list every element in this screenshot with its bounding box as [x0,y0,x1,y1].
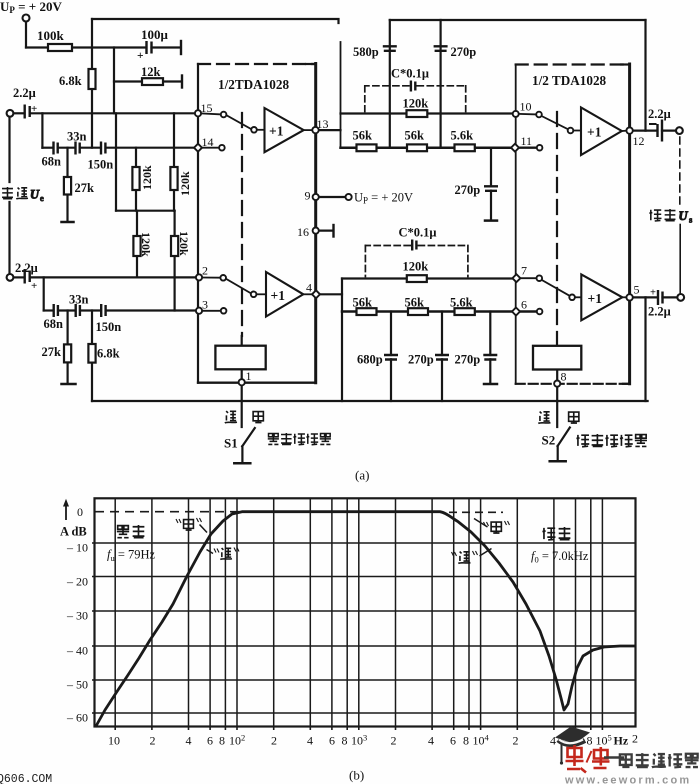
svg-text:(a): (a) [355,468,369,483]
label input Ue [2,187,44,203]
terminal input lower [7,274,14,281]
svg-text:56k: 56k [353,296,373,310]
svg-text:12: 12 [633,134,645,148]
capacitor 580p plates [383,46,397,51]
node pin14 [194,144,202,152]
svg-text:68n: 68n [42,155,62,169]
resistor 120k no1 [132,167,139,190]
svg-text:1/2TDA1028: 1/2TDA1028 [218,77,289,92]
wire 270p mid column [441,312,443,356]
wire 270p top column [440,20,442,148]
svg-text:2: 2 [150,734,156,748]
wire out lower link [633,296,658,298]
svg-text:104: 104 [473,733,490,748]
capacitor 33n upper [76,142,80,155]
svg-text:2.2μ: 2.2μ [648,107,671,121]
wire 120k no2 column [173,113,175,210]
svg-text:+1: +1 [271,288,286,303]
amp4 out wire [622,296,626,298]
wire 120k no4 column [174,211,176,311]
resistor 27k upper [64,177,71,195]
control block U1 [215,346,265,370]
terminal out lower [677,294,684,301]
svg-text:270p: 270p [455,183,481,197]
resistor 56k f2a [357,308,377,315]
svg-text:5: 5 [634,283,640,297]
label duan-quoted right [484,521,510,533]
svg-text:120k: 120k [139,232,153,257]
resistor 56k f2b [408,308,428,315]
capacitor 2.2u out lower plates [658,290,663,305]
switch ch4 wires [519,277,536,279]
contact amp1 in [251,127,257,133]
wire 270p ch1 column [490,148,492,186]
svg-text:8: 8 [561,370,567,384]
svg-text:68n: 68n [44,317,64,331]
wire input upper lead [14,112,25,114]
svg-text:– 50: – 50 [66,678,88,692]
capacitor 680p plates [384,355,398,360]
wire input bus x9.5 upper [8,117,10,182]
IC2 inner dashed [556,112,558,346]
resistor 6.8k upper [89,69,96,89]
contact 14a [219,145,225,151]
wire mid divider bus y210.7 [116,210,175,212]
wire input lower lead [14,276,25,278]
gnd bar 270p ch2 [484,383,497,386]
wire 270p gnd column [489,312,491,356]
resistor 120k no3 [133,236,140,256]
wire 580p column [389,20,391,148]
wire bracket column x342 [341,279,343,402]
terminal input upper [7,110,14,117]
node stub bar pin16 [332,225,334,237]
switch S1 blade [242,428,255,446]
switch ch3 nc wire [519,146,537,148]
svg-text:0: 0 [77,505,83,519]
svg-text:4: 4 [186,734,192,748]
pointer duan right [474,519,488,528]
svg-text:+: + [31,103,37,115]
chart axis ticks [115,727,602,731]
svg-text:2: 2 [632,732,638,746]
IC2 box edges [515,65,517,384]
svg-text:2: 2 [391,734,397,748]
svg-text:5.6k: 5.6k [450,296,473,310]
svg-text:270p: 270p [408,353,434,367]
contact amp4 in [569,295,575,301]
capacitor 2.2u in upper plates [25,105,30,119]
svg-text:270p: 270p [455,353,481,367]
svg-text:2: 2 [513,734,519,748]
svg-text:4: 4 [307,734,313,748]
svg-text:16: 16 [297,225,309,239]
switch S2 blade [558,428,570,447]
capacitor 33n lower [76,304,80,317]
svg-text:Hz: Hz [614,734,629,748]
label noise filter 1 [268,433,331,445]
svg-text:f0 = 7.0kHz: f0 = 7.0kHz [531,549,589,565]
capacitor 100u plates [147,41,152,54]
svg-text:12k: 12k [141,65,161,79]
resistor 6.8k lower [88,344,95,363]
op-amp U2b [581,274,622,320]
wire input line upper y113 [30,112,197,114]
svg-text:2.2μ: 2.2μ [15,261,38,275]
terminal out upper [676,127,683,134]
response curve [96,512,636,727]
wire out lower term [663,296,678,298]
terminal Up pin9 [346,194,352,200]
svg-text:U: U [30,188,40,202]
node pin3 [196,308,202,314]
wire 6.8k lower column [91,311,93,402]
op-amp U2a [581,108,622,156]
node stub bar 12k [181,76,183,88]
wire fb right column x645 [644,297,646,401]
node pin4 [312,290,320,298]
svg-text:6: 6 [450,734,456,748]
logo dash [604,756,624,759]
label duan S2 [569,412,579,423]
svg-text:2.2μ: 2.2μ [13,86,36,100]
switch ch2 nc wire [202,310,221,312]
logo site name chars [620,753,699,767]
logo graduation cap [555,727,590,745]
svg-text:4: 4 [428,734,434,748]
switch ch1 nc wire [201,147,219,149]
svg-text:3: 3 [202,298,208,312]
contact 7a [537,275,543,281]
node pin16 [313,228,319,234]
wire Vp bias row y47 [26,46,146,48]
svg-text:6: 6 [329,734,335,748]
wire S2 column [556,387,558,427]
logo chongchong red chars [566,745,610,773]
svg-text:120k: 120k [177,231,191,256]
resistor 100k [48,44,72,51]
capacitor C*0.1u ch1 plates [411,81,415,92]
gnd bar 27k lower [62,383,76,386]
contact amp2 in [251,292,257,298]
svg-text:6: 6 [521,298,527,312]
contact 10a [536,112,542,118]
gnd bar 27k upper [62,221,74,224]
pointer duan left [200,525,208,533]
wire pin9 out [319,196,346,198]
contact 3a [221,308,227,314]
svg-text:– 20: – 20 [66,575,88,589]
svg-text:56k: 56k [405,129,425,143]
svg-text:+: + [650,288,656,299]
capacitor 2.2u in lower plates [25,269,30,284]
node pin6 [512,308,520,316]
resistor 56k f1b [407,144,427,151]
svg-text:C*0.1μ: C*0.1μ [391,67,429,81]
svg-text:14: 14 [202,135,214,149]
wire caps row upper [42,147,53,149]
node pin2 [196,274,202,280]
label duan S1 [253,412,263,423]
wire input line lower y277 [30,276,199,278]
wire Vp drop [25,22,27,48]
svg-text:4: 4 [306,281,312,295]
terminal Vp [23,15,30,22]
wire feedback bus bottom y401 [92,400,648,402]
svg-text:C*0.1μ: C*0.1μ [399,226,437,240]
chart gridlines horizontal [92,543,636,713]
wire filter1 row y113.5 [341,112,516,114]
contact 11a [537,145,543,151]
svg-text:33n: 33n [69,293,89,307]
svg-text:fu = 79Hz: fu = 79Hz [107,548,156,564]
svg-text:56k: 56k [405,296,425,310]
resistor 120k filter1 [407,110,428,117]
label duan-quoted left [176,518,202,530]
svg-text:S1: S1 [224,436,238,451]
capacitor 270p mid plates [435,355,449,360]
gnd bar 270p ch1 [485,219,497,222]
contact 15a [221,112,227,118]
wire 12k row [114,80,182,82]
node pin9 [313,194,319,200]
svg-text:27k: 27k [42,345,62,359]
pointer tong right [480,549,492,557]
svg-text:8: 8 [342,734,348,748]
label plus out upper [649,123,657,125]
svg-text:s: s [689,215,692,225]
switch ch1 wires [201,113,221,114]
wire out couple column lower [679,225,681,294]
wire mid divider column x116 [115,113,117,210]
svg-text:4: 4 [550,734,556,748]
pointer tong left [207,550,214,554]
wire filter1 row y147.7 [341,146,515,149]
svg-text:680p: 680p [357,353,383,367]
node pin12 [626,127,632,133]
label output Us [649,209,692,225]
label tong-quoted left [214,548,239,560]
switch ch3 wires [519,113,537,116]
capacitor 68n upper [54,142,58,155]
op-amp U1a [215,108,622,370]
svg-text:10: 10 [108,734,120,748]
wire 12k column x114 [113,48,115,114]
control block U2 [533,346,581,370]
resistor 5.6k f1 [455,144,475,151]
svg-text:150n: 150n [88,158,114,172]
svg-text:56k: 56k [353,129,373,143]
IC1 box edges [197,64,199,383]
IC1 inner dashed [241,113,244,346]
wire rail2 drop to out [644,20,646,131]
contact amp3 in [568,128,574,134]
wire caps row lower [44,309,54,311]
amp3 out wire [622,130,627,132]
svg-text:7: 7 [521,264,527,278]
capacitor 270p gnd plates [483,355,497,360]
svg-text:27k: 27k [75,181,95,195]
svg-text:100k: 100k [37,28,65,43]
svg-text:5.6k: 5.6k [451,129,474,143]
node pin10 [513,111,519,117]
wire out couple dashed upper [679,137,681,204]
svg-text:– 60: – 60 [66,711,88,725]
svg-text:8: 8 [219,734,225,748]
svg-text:8: 8 [463,734,469,748]
svg-text:6: 6 [207,734,213,748]
svg-text:580p: 580p [353,45,379,59]
capacitor 150n upper [101,142,105,155]
svg-text:2: 2 [202,264,208,278]
switch ch4 nc wire [519,310,537,312]
svg-text:150n: 150n [96,320,122,334]
capacitor 2.2u out upper plates [658,120,663,142]
contact 6a [537,309,543,315]
svg-text:+: + [137,50,144,62]
svg-text:2.2μ: 2.2μ [648,305,671,319]
svg-text:Q606.COM: Q606.COM [0,773,52,784]
label zaosheng [542,527,570,540]
node pin8 [554,381,560,387]
wire out upper link [633,130,657,132]
resistor 120k no4 [171,236,178,256]
amp1 out wire [304,129,313,131]
node pin15 [195,110,201,116]
svg-text:120k: 120k [403,97,429,111]
wire 680p column [390,312,392,356]
wire top feedback rail right [390,19,646,21]
label zasheng [117,525,145,538]
node pin7 [512,274,520,282]
wire 6.8k column x92 [91,19,93,148]
svg-text:9: 9 [305,189,311,203]
wire 100u link [152,46,181,48]
svg-text:6.8k: 6.8k [59,74,82,88]
resistor 5.6k f2 [455,308,475,315]
svg-text:S2: S2 [542,433,556,448]
svg-text:15: 15 [201,101,213,115]
wire drop x42 to caps row [41,113,43,147]
C*1 dashed links [365,86,466,112]
capacitor 270p top plates [434,46,448,51]
wire bracket column x340 [340,42,342,148]
switch ch2 wires [202,277,220,279]
chart frame [95,498,636,726]
wire S1 column [241,385,243,427]
chart 0dB dashed line [95,511,240,513]
svg-text:103: 103 [351,733,367,748]
label tong S1 [225,411,237,423]
svg-text:105: 105 [596,733,612,748]
node stub bar 100u [180,41,182,54]
wire 27k lower column [66,311,68,384]
wire pin16 stub [319,230,333,232]
resistor 120k no2 [170,167,177,190]
resistor 56k f1a [357,144,377,151]
svg-text:6.8k: 6.8k [97,347,120,361]
svg-text:100μ: 100μ [141,27,169,42]
svg-text:UP = + 20V: UP = + 20V [354,191,413,206]
wire drop x43.7 lower [43,277,45,310]
wire 27k upper column [66,148,68,221]
chart (b) frequency response [63,498,636,730]
svg-text:+1: +1 [588,291,603,306]
capacitor 270p ch1 plates [484,186,498,191]
svg-text:e: e [40,193,44,203]
wire node4 out [320,293,342,295]
svg-text:11: 11 [521,134,533,148]
svg-text:120k: 120k [178,171,192,196]
wire top feedback rail left [92,19,339,23]
svg-text:A dB: A dB [60,525,87,539]
op-amp U1b [266,272,303,317]
resistor 120k filter2 [407,275,427,282]
axis arrow [65,503,67,520]
node pin1 [239,379,245,385]
resistor 27k lower [64,344,71,362]
svg-text:2: 2 [271,734,277,748]
node pin5 [626,294,632,300]
wire 120k no3 column [136,211,138,278]
logo eeworm [555,727,699,784]
svg-text:33n: 33n [67,130,87,144]
svg-text:120k: 120k [403,260,429,274]
amp2 out wire [303,293,312,295]
svg-text:13: 13 [317,117,329,131]
svg-text:UP = + 20V: UP = + 20V [0,0,62,15]
gnd bar S1 [234,462,250,465]
svg-text:+: + [31,280,37,292]
svg-text:– 40: – 40 [66,644,88,658]
label tong-quoted right [452,551,478,563]
svg-text:+1: +1 [587,125,602,140]
chart gridlines vertical [115,498,602,726]
svg-text:270p: 270p [451,45,477,59]
wire input bus x9.5 lower [8,202,10,274]
svg-text:1: 1 [246,369,252,383]
svg-text:(b): (b) [349,768,364,783]
capacitor 150n lower [101,304,105,317]
svg-text:+1: +1 [269,124,284,139]
label noise filter 2 [576,434,647,447]
svg-text:10: 10 [520,100,532,114]
svg-text:8: 8 [587,734,593,748]
capacitor 68n lower [54,304,58,317]
wire filter2 row y311.5 [342,310,515,313]
capacitor C*0.1u ch2 plates [412,240,416,251]
node pin11 [511,144,519,152]
contact 2a [220,275,226,281]
wire out upper term [662,130,676,132]
svg-text:– 10: – 10 [66,541,88,555]
svg-text:– 30: – 30 [66,609,88,623]
label tong S2 [538,412,550,424]
wire 120k no1 column [135,148,137,211]
wire node13 out [319,129,341,131]
svg-text:1/2 TDA1028: 1/2 TDA1028 [532,73,607,88]
node pin13 [312,127,318,133]
svg-text:102: 102 [229,733,245,748]
C*2 dashed links [365,246,468,277]
svg-text:www.eeworm.com: www.eeworm.com [564,775,691,784]
resistor 12k [142,78,163,85]
svg-text:120k: 120k [140,165,154,190]
svg-text:U: U [679,209,689,223]
wire filter2 row y278.5 [342,277,516,279]
gnd bar S2 [550,460,566,463]
